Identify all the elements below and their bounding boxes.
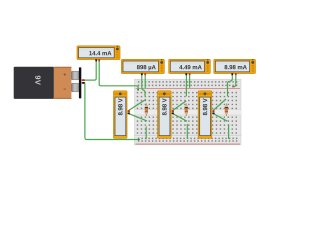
value label 14.4 mA [89, 51, 111, 55]
wire VM2 red probe to R2 top [172, 101, 186, 111]
battery positive connector [82, 79, 86, 81]
voltmeter VM3 8.98 V [198, 91, 214, 139]
value label 8.98 V [118, 98, 122, 115]
value label 898 µA [137, 65, 156, 70]
wire M2 black probe to top rail [142, 75, 145, 96]
value label 8.98 V [162, 98, 166, 115]
value label 8.98 V [203, 98, 207, 115]
wire ammeter M1 to breadboard top rail [99, 61, 138, 90]
wire VM3 black probe to R3 bottom [213, 113, 227, 121]
multimeter M2 898 uA [121, 59, 164, 75]
wire VM1 red probe to R1 top [128, 99, 146, 110]
voltmeter VM1 8.98 V [114, 91, 130, 139]
wire battery- to breadboard bottom rail [85, 83, 139, 139]
wire R3 column to bottom rail [228, 124, 230, 139]
wire R1 column to bottom rail [145, 127, 147, 140]
resistor R1 [145, 103, 148, 116]
multimeter M1 14.4 mA [77, 46, 120, 62]
wire M4 black probe to R3 column [228, 75, 233, 96]
breadboard [135, 79, 242, 145]
wire R2 column to bottom rail [186, 124, 188, 139]
value label 8.98 mA [224, 65, 246, 69]
wire VM1 black probe to R1 bottom [128, 113, 147, 121]
wire M3 red probe to top rail [189, 75, 191, 87]
multimeter M3 4.49 mA [169, 59, 211, 75]
wire VM2 black probe to R2 bottom [172, 113, 187, 121]
value label 4.49 mA [179, 65, 201, 69]
multimeter M4 8.98 mA [214, 59, 256, 75]
wire M4 red probe to top rail [233, 75, 236, 86]
battery negative connector [82, 82, 86, 84]
battery label 9V [35, 76, 40, 85]
voltmeter VM2 8.98 V [158, 91, 174, 139]
resistor R3 [225, 103, 228, 116]
wire VM3 red probe to R3 top [213, 99, 226, 111]
battery 9V [14, 67, 82, 99]
resistor R2 [185, 103, 188, 116]
wire battery+ to ammeter M1 [85, 61, 96, 80]
wire M2 red probe to rail [144, 75, 146, 88]
wire M3 black probe to R2 column [185, 75, 187, 96]
